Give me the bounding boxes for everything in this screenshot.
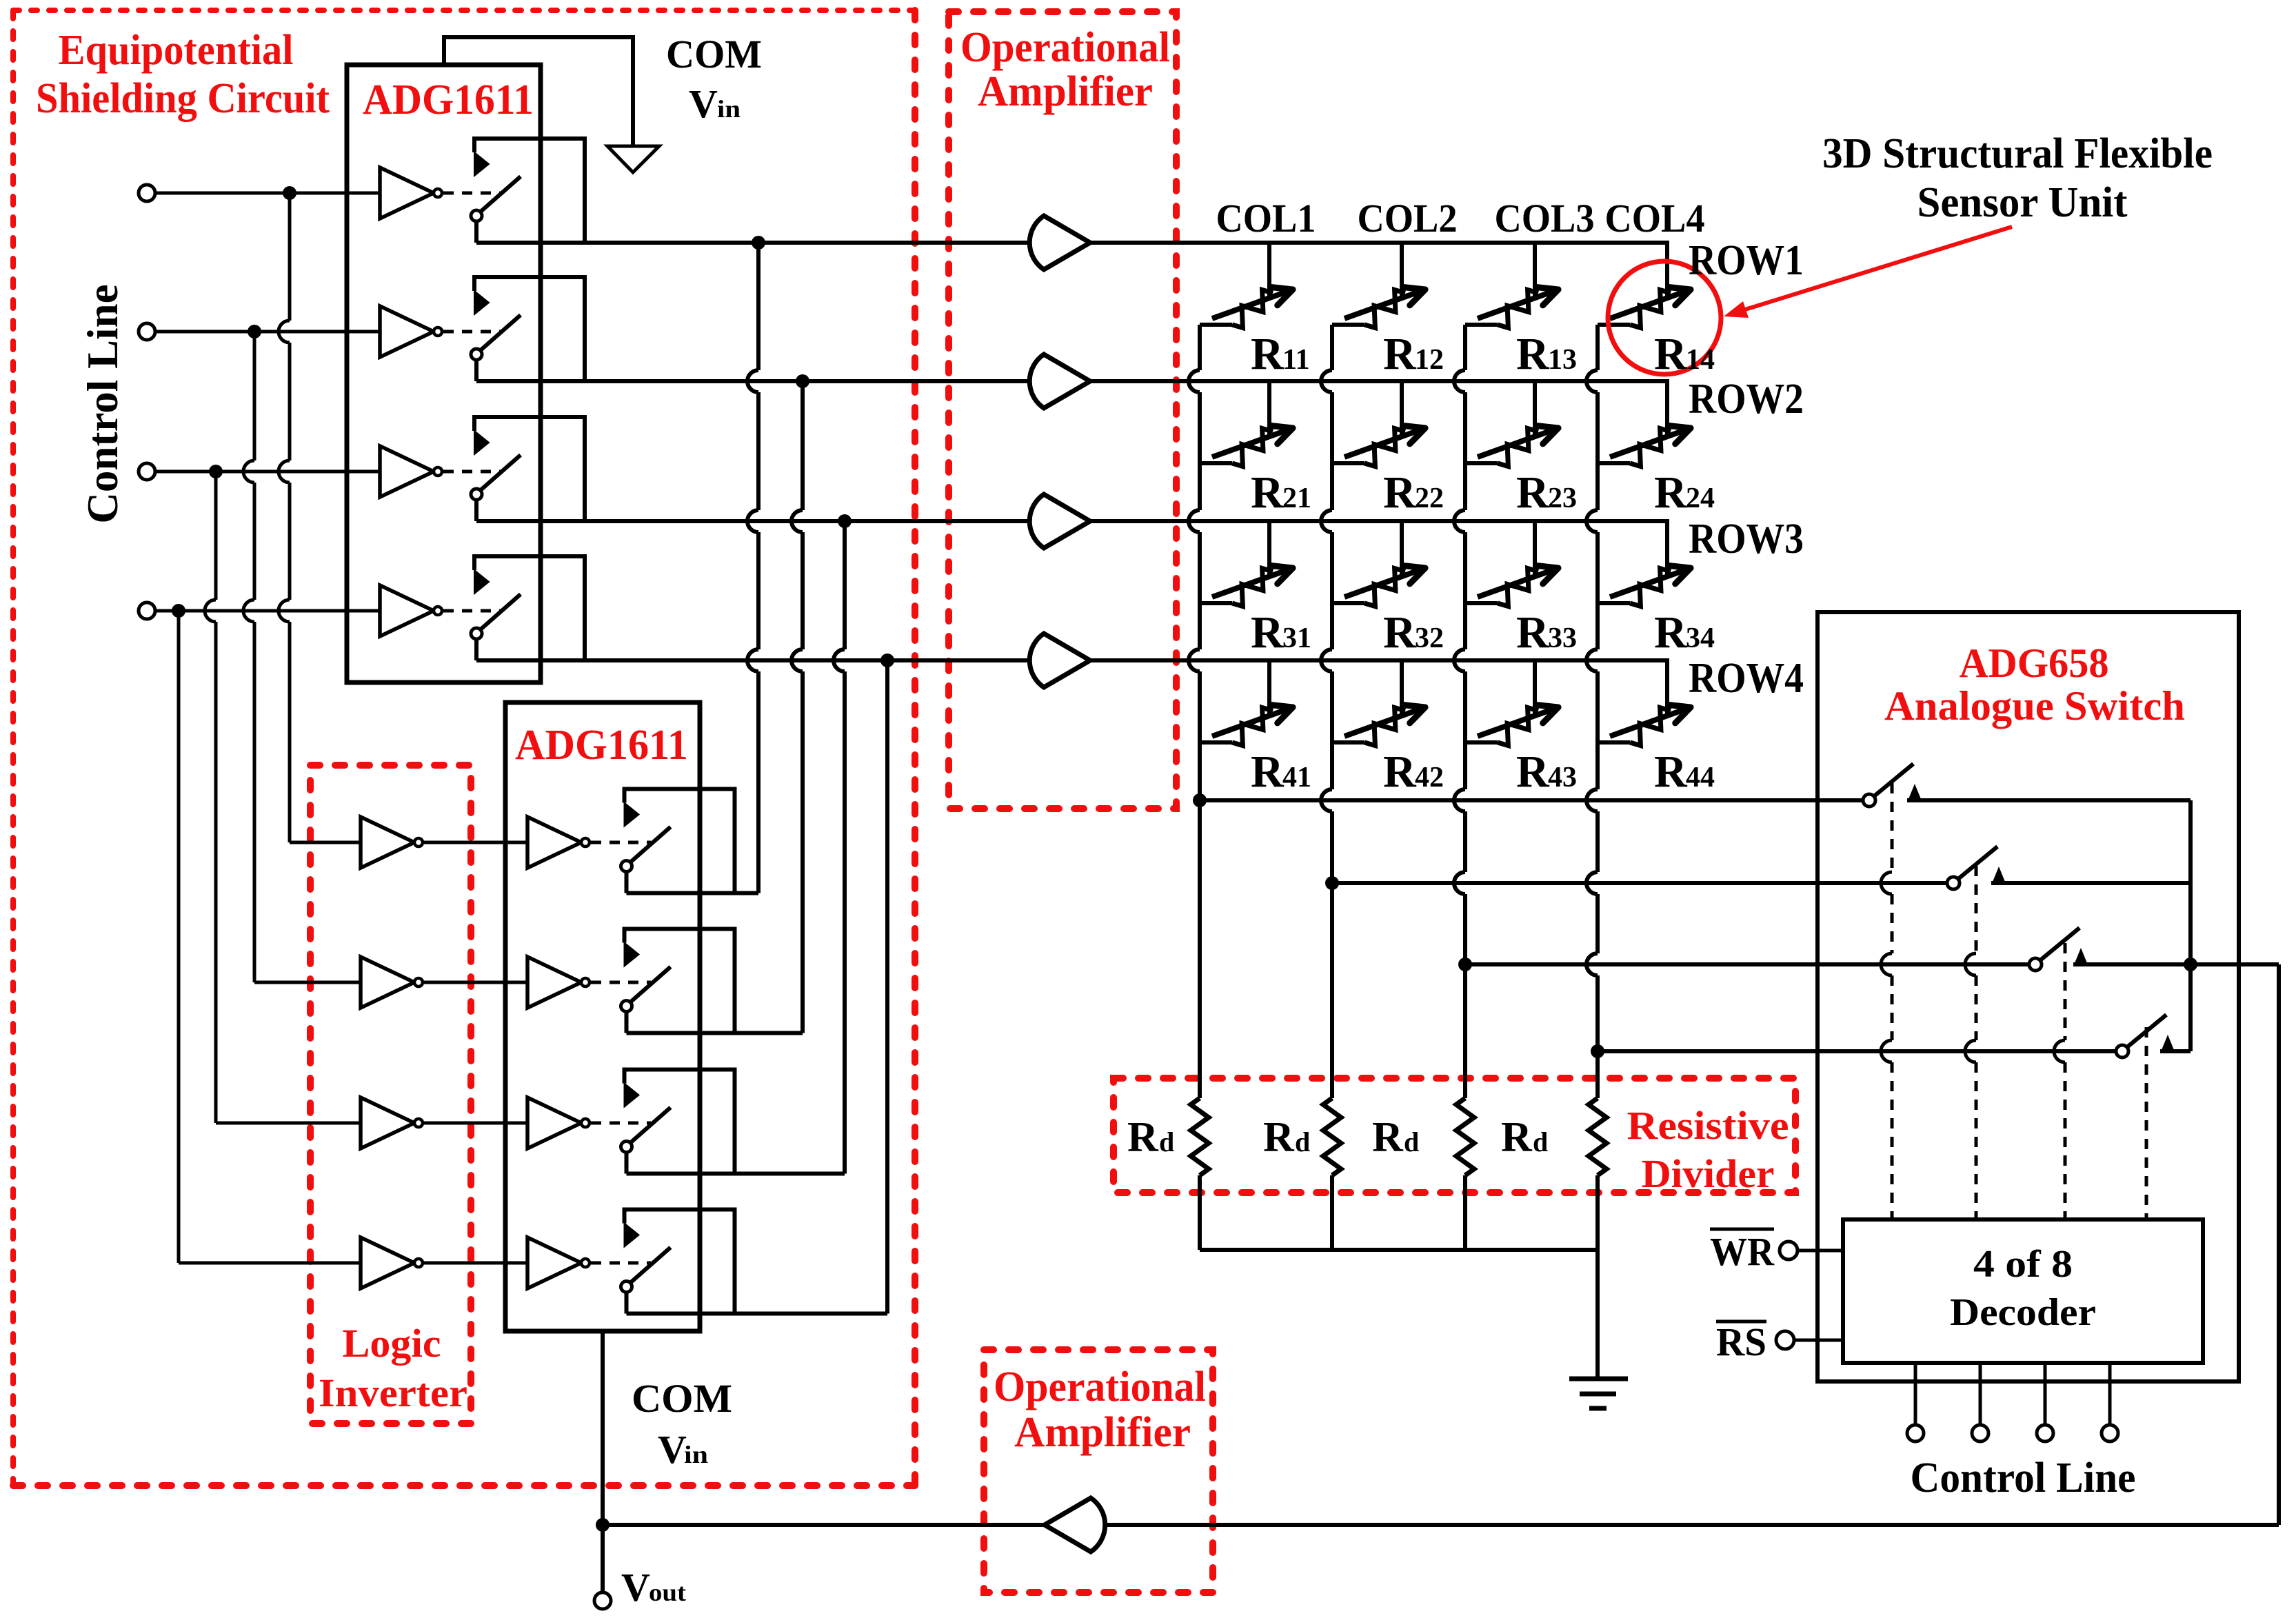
svg-text:ADG658: ADG658 <box>1960 640 2109 686</box>
svg-text:R: R <box>1127 1114 1159 1161</box>
svg-text:Equipotential: Equipotential <box>59 27 294 74</box>
svg-text:Amplifier: Amplifier <box>1014 1409 1191 1456</box>
svg-text:d: d <box>1533 1126 1548 1157</box>
svg-text:d: d <box>1295 1126 1310 1157</box>
svg-text:Decoder: Decoder <box>1950 1291 2096 1334</box>
svg-text:R: R <box>1516 607 1550 658</box>
svg-text:COM: COM <box>666 32 762 77</box>
svg-text:41: 41 <box>1282 762 1311 793</box>
svg-text:R: R <box>1383 747 1417 797</box>
svg-text:ROW3: ROW3 <box>1689 516 1804 563</box>
svg-text:Logic: Logic <box>343 1321 441 1366</box>
svg-text:R: R <box>1251 329 1285 379</box>
svg-text:COM: COM <box>632 1376 732 1421</box>
svg-text:42: 42 <box>1415 762 1444 793</box>
svg-text:in: in <box>717 95 741 123</box>
svg-text:14: 14 <box>1686 344 1715 376</box>
svg-text:RS: RS <box>1716 1319 1766 1364</box>
svg-text:21: 21 <box>1282 483 1311 514</box>
svg-text:44: 44 <box>1686 762 1715 793</box>
svg-text:Resistive: Resistive <box>1627 1103 1789 1148</box>
svg-text:11: 11 <box>1282 344 1310 376</box>
svg-text:ADG1611: ADG1611 <box>515 722 688 769</box>
svg-text:COL1: COL1 <box>1216 196 1316 241</box>
svg-text:ADG1611: ADG1611 <box>363 77 534 123</box>
svg-text:Control Line: Control Line <box>79 284 127 523</box>
svg-text:Sensor Unit: Sensor Unit <box>1917 179 2128 226</box>
svg-text:Operational: Operational <box>994 1364 1206 1410</box>
svg-text:in: in <box>684 1441 708 1468</box>
svg-text:32: 32 <box>1415 622 1444 654</box>
svg-text:23: 23 <box>1548 483 1577 514</box>
svg-text:d: d <box>1404 1126 1419 1157</box>
svg-text:4 of 8: 4 of 8 <box>1973 1243 2073 1286</box>
svg-text:Amplifier: Amplifier <box>978 68 1153 115</box>
svg-text:R: R <box>1516 467 1550 518</box>
svg-text:R: R <box>1654 329 1688 379</box>
svg-text:ROW1: ROW1 <box>1689 237 1804 284</box>
svg-text:R: R <box>1501 1114 1533 1161</box>
svg-text:COL4: COL4 <box>1605 196 1705 241</box>
svg-text:R: R <box>1654 607 1688 658</box>
svg-text:out: out <box>649 1579 686 1606</box>
svg-text:22: 22 <box>1415 483 1444 514</box>
svg-text:43: 43 <box>1548 762 1577 793</box>
svg-text:Inverter: Inverter <box>319 1370 467 1415</box>
svg-text:ROW4: ROW4 <box>1689 655 1804 702</box>
svg-text:R: R <box>1654 747 1688 797</box>
svg-text:R: R <box>1372 1114 1404 1161</box>
svg-text:Analogue Switch: Analogue Switch <box>1884 683 2185 729</box>
svg-text:R: R <box>1383 467 1417 518</box>
svg-text:33: 33 <box>1548 622 1577 654</box>
svg-text:R: R <box>1251 747 1285 797</box>
svg-text:Operational: Operational <box>960 24 1170 71</box>
svg-text:R: R <box>1251 467 1285 518</box>
svg-text:R: R <box>1516 329 1550 379</box>
svg-text:R: R <box>1263 1114 1295 1161</box>
svg-text:Divider: Divider <box>1642 1151 1775 1196</box>
svg-text:R: R <box>1383 607 1417 658</box>
svg-text:Control Line: Control Line <box>1911 1455 2136 1501</box>
svg-text:34: 34 <box>1686 622 1715 654</box>
svg-text:R: R <box>1383 329 1417 379</box>
svg-text:12: 12 <box>1415 344 1444 376</box>
svg-text:Shielding Circuit: Shielding Circuit <box>36 75 330 122</box>
svg-text:V: V <box>658 1427 687 1472</box>
svg-text:V: V <box>621 1565 650 1610</box>
svg-text:31: 31 <box>1282 622 1311 654</box>
svg-text:13: 13 <box>1548 344 1577 376</box>
svg-text:R: R <box>1251 607 1285 658</box>
svg-text:R: R <box>1654 467 1688 518</box>
svg-text:WR: WR <box>1710 1229 1775 1274</box>
svg-text:V: V <box>689 81 718 126</box>
svg-text:COL3: COL3 <box>1495 196 1595 241</box>
svg-text:d: d <box>1159 1126 1174 1157</box>
svg-text:R: R <box>1516 747 1550 797</box>
svg-text:3D Structural Flexible: 3D Structural Flexible <box>1822 130 2213 177</box>
svg-text:COL2: COL2 <box>1358 196 1458 241</box>
svg-text:ROW2: ROW2 <box>1689 376 1804 423</box>
svg-text:24: 24 <box>1686 483 1715 514</box>
